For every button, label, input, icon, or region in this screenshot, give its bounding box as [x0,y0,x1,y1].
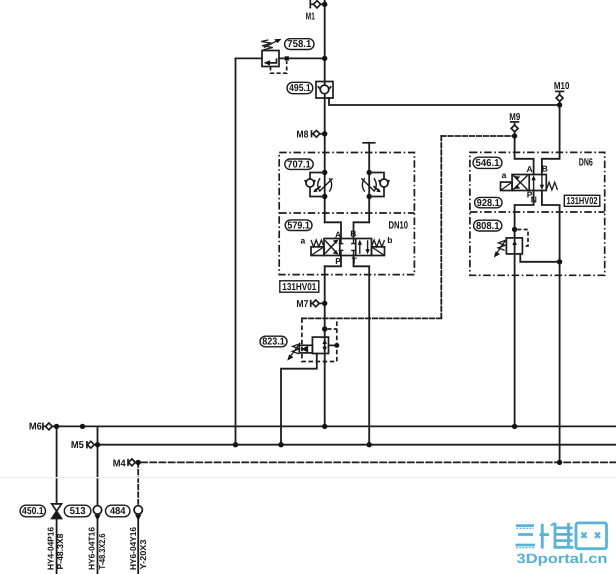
wire 484 branch lower [137,520,139,574]
wire plugged port riser in block 131HV01 [368,143,370,223]
test point M5 [87,441,94,448]
svg-text:495.1: 495.1 [289,83,311,94]
throttle check valve left (707.1) [305,170,333,199]
svg-text:3Dportal.cn: 3Dportal.cn [517,551,608,566]
test coupling 484 [134,506,142,521]
svg-text:707.1: 707.1 [287,159,311,170]
manifold block 131HV02 border [470,152,605,275]
svg-text:M7: M7 [296,299,308,310]
test point M1 [310,0,327,8]
svg-text:928.1: 928.1 [477,198,500,209]
wire main pressure line upper (M1 to valve step) [324,0,326,222]
wire port T of 546.1 to return riser [542,191,560,463]
wire 513 branch upper [97,426,99,506]
label bubble 450.1 [20,505,45,517]
solenoid valve 546.1 [501,175,558,191]
check valve 495.1 [316,82,333,99]
svg-text:P: P [335,256,341,266]
svg-text:450.1: 450.1 [22,506,44,517]
wire step to port B of 579.1 [354,222,370,238]
label box 131HV02 [564,195,600,207]
svg-text:513: 513 [70,506,86,517]
wire tank return riser of 131HV01 [368,266,370,444]
wire 758.1 left drain riser [236,57,263,59]
svg-text:808.1: 808.1 [476,221,500,232]
label bubble 823.1 [260,336,287,348]
svg-text:M4: M4 [113,458,126,469]
svg-text:T: T [352,255,358,265]
svg-text:M6: M6 [29,421,42,432]
wire M9 riser to port A of 546.1 [515,136,534,175]
svg-text:DN6: DN6 [579,157,593,169]
svg-text:N: N [531,195,537,205]
wire main pressure line lower (to M6 header) [324,266,326,426]
svg-text:Y-20X3: Y-20X3 [138,539,148,569]
svg-text:HY4-04P16: HY4-04P16 [46,527,56,570]
svg-text:484: 484 [110,506,126,517]
label bubble 513 [64,505,91,517]
wire M6 pressure header [52,425,616,427]
pressure valve 808.1 [494,227,563,265]
label bubble 484 [106,505,130,517]
pilot line dashed M9 to 823.1 [441,135,514,137]
svg-text:M9: M9 [509,112,520,123]
test coupling 513 [93,506,101,521]
wire port P of 546.1 down through 808.1 [515,191,534,427]
svg-text:M5: M5 [71,440,84,451]
manifold block 131HV01 border [279,153,414,275]
svg-text:758.1: 758.1 [287,39,311,50]
port letters of 546.1 [502,163,548,204]
test point M7 [311,300,328,307]
relief valve 758.1 [261,39,327,73]
wire drain of 808.1 to return riser [520,254,559,262]
test point M8 [312,130,328,137]
test point M10 [555,91,564,107]
wire M5 tank header [94,444,616,446]
wire 450.1 branch upper [56,426,58,503]
wire port T step of 579.1 [354,256,370,267]
svg-text:M8: M8 [296,129,308,140]
wire M4 leak-oil header (dashed) [135,461,138,463]
wire 513 branch lower [97,520,99,574]
label bubble 928.1 [475,197,502,208]
label bubble 495.1 [287,82,313,94]
junction dots on headers [54,424,562,465]
svg-text:M10: M10 [554,81,570,92]
wire 484 dashed drop [137,462,139,503]
wire 758.1 to main line [279,57,325,59]
svg-text:M1: M1 [306,11,315,22]
svg-text:579.1: 579.1 [287,220,310,231]
svg-text:A: A [527,164,533,174]
svg-text:A: A [335,229,341,239]
label bubble 758.1 [285,39,314,51]
label bubble 707.1 [285,159,313,170]
port letters of 579.1 [301,229,393,266]
svg-text:HY6-04Y16: HY6-04Y16 [128,527,138,570]
wire port P step of 579.1 [325,256,341,267]
svg-text:b: b [387,235,392,245]
svg-text:131HV02: 131HV02 [567,196,598,207]
wire drain of 823.1 to tank header [281,354,317,445]
svg-text:131HV01: 131HV01 [282,282,316,293]
shut-off valve 450.1 [52,504,62,519]
wire M10 riser to port B of 546.1 [542,105,560,175]
svg-text:HY6-04T16: HY6-04T16 [86,527,96,570]
label box 131HV01 [280,281,319,293]
svg-text:P-48.3X8: P-48.3X8 [55,533,65,569]
faint scan artifact line [0,477,616,478]
svg-text:DN10: DN10 [389,220,409,232]
svg-text:546.1: 546.1 [476,158,500,169]
test point M9 [510,122,519,139]
svg-text:a: a [301,236,306,246]
wire 450.1 branch lower [56,519,58,574]
pressure reducing valve 823.1 [287,318,339,361]
svg-text:B: B [350,229,356,239]
svg-text:823.1: 823.1 [262,337,285,348]
wire check valve 495.1 side branch to M10 [329,98,560,105]
svg-text:a: a [502,170,507,180]
label bubble 546.1 [473,157,502,169]
label bubble 579.1 [285,220,312,232]
wire step to port A of 579.1 [325,222,341,238]
watermark 3Dportal logo [516,523,607,549]
svg-text:B: B [542,163,548,173]
throttle check valve right (707.1) [361,170,389,199]
directional valve 579.1 [311,239,385,256]
test point M6 [43,423,52,431]
label bubble 808.1 [474,220,502,232]
plugged port cap on riser [362,142,375,144]
svg-text:T-48.3X2.6: T-48.3X2.6 [97,533,107,569]
test point M4 [128,459,135,466]
